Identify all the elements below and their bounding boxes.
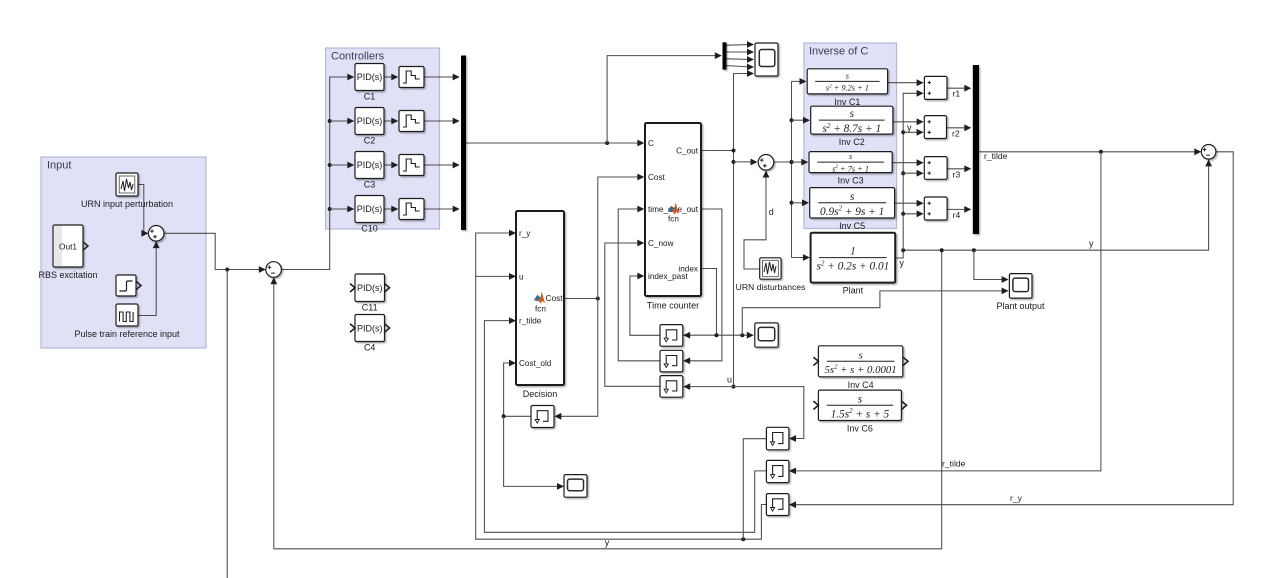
- svg-text:s: s: [849, 152, 852, 161]
- svg-text:Inv C5: Inv C5: [839, 221, 865, 231]
- wire Cost junction down to Delay D1: [554, 299, 598, 420]
- wire PID row3 to rate transition: [384, 162, 398, 169]
- svg-text:s: s: [858, 393, 863, 405]
- svg-text:fcn: fcn: [535, 305, 546, 314]
- svg-text:y: y: [900, 258, 905, 268]
- wire junction to Sum2b: [734, 159, 758, 166]
- wire delay T1 input line and Scope2: [683, 332, 754, 339]
- svg-text:0.9s2 + 9s + 1: 0.9s2 + 9s + 1: [820, 205, 884, 218]
- svg-text:C4: C4: [364, 343, 376, 353]
- ports Inv C6 unconnected: [813, 401, 906, 409]
- svg-text:Cost_old: Cost_old: [519, 359, 552, 368]
- block transfer fcn Inv C3: [809, 152, 892, 186]
- scope Scope2: [755, 323, 778, 347]
- wire y feedback bottom long: [270, 250, 941, 549]
- svg-text:Plant: Plant: [843, 286, 864, 296]
- svg-text:Decision: Decision: [523, 389, 558, 399]
- block Step: [116, 275, 141, 296]
- svg-text:y: y: [907, 123, 912, 133]
- wire index to y335 line: [701, 269, 717, 336]
- svg-text:u: u: [519, 272, 524, 281]
- wire Decision Cost out to junction: [564, 297, 600, 301]
- wire time_out to Delay T2: [683, 209, 722, 364]
- scope Scope1: [755, 43, 778, 76]
- wire rate transition row1 to Mux1: [424, 74, 460, 81]
- sum Sum2b: [758, 155, 774, 171]
- svg-text:Inv C2: Inv C2: [839, 137, 865, 147]
- wire PID row2 to rate transition: [384, 118, 398, 125]
- wire branch down to Scope3: [504, 416, 564, 490]
- svg-text:s: s: [858, 349, 862, 361]
- svg-text:Inverse of C: Inverse of C: [809, 46, 868, 58]
- svg-text:PID(s): PID(s): [357, 204, 383, 214]
- scope Plant output: [996, 274, 1045, 311]
- block Decision: [516, 211, 564, 399]
- wire Demux out2 to Scope1: [727, 49, 755, 56]
- wire Cost junction up to Time counter Cost: [598, 174, 645, 299]
- svg-text:Inv C6: Inv C6: [847, 424, 873, 434]
- mux Mux1: [461, 56, 466, 231]
- svg-text:r_y: r_y: [1010, 493, 1023, 503]
- svg-text:URN disturbances: URN disturbances: [736, 282, 806, 292]
- wire URN input perturbation to Sum1: [138, 185, 148, 237]
- block transfer fcn Inv C2: [811, 106, 893, 147]
- wire branch to Plant output scope input2: [742, 288, 1008, 336]
- wire to Inv C2: [792, 117, 811, 124]
- block rate transition C1: [399, 67, 424, 88]
- area Inverse of C: [804, 43, 897, 229]
- svg-text:C11: C11: [362, 303, 378, 313]
- block Delay T1: [660, 325, 683, 347]
- wire y bus to add r3: [903, 170, 923, 177]
- svg-text:1: 1: [850, 246, 856, 258]
- block PID C10: [355, 196, 384, 234]
- svg-text:y: y: [1089, 239, 1094, 249]
- wire to Inv C1: [792, 78, 807, 85]
- svg-text:s: s: [850, 191, 855, 203]
- svg-text:r_tilde: r_tilde: [519, 317, 542, 326]
- block Delay B: [766, 460, 789, 482]
- wire Pulse train to Sum1 bottom: [138, 241, 160, 315]
- wire u branch: [476, 273, 516, 280]
- svg-text:s: s: [846, 71, 849, 80]
- svg-text:Inv C1: Inv C1: [834, 97, 860, 107]
- wire Demux out1 to Scope1: [727, 41, 755, 48]
- demux Demux1: [723, 42, 727, 69]
- wire PID row4 to rate transition: [384, 206, 398, 213]
- block PID C1: [355, 64, 384, 102]
- block PID C4: [350, 315, 390, 353]
- wire Sum2 out to controllers bus: [281, 74, 354, 270]
- wire add r3 to Mux2: [947, 165, 971, 172]
- svg-text:Cost: Cost: [546, 294, 564, 303]
- sum Sum2: [266, 262, 282, 278]
- sum Sum3: [1201, 145, 1216, 160]
- svg-text:r_tilde: r_tilde: [984, 151, 1008, 161]
- svg-text:Time counter: Time counter: [647, 301, 699, 311]
- wire y bus to add r4: [903, 210, 923, 217]
- svg-text:RBS excitation: RBS excitation: [38, 270, 97, 280]
- block transfer fcn Inv C6: [818, 390, 901, 433]
- svg-text:r4: r4: [953, 210, 961, 220]
- wire branch down off-canvas: [226, 270, 228, 578]
- svg-text:r2: r2: [952, 128, 960, 138]
- svg-text:C3: C3: [364, 180, 376, 190]
- wire r_tilde line from Mux2 to Sum3: [979, 148, 1201, 155]
- block RBS excitation: [38, 225, 97, 280]
- svg-text:Input: Input: [47, 160, 71, 172]
- svg-text:r1: r1: [953, 89, 961, 99]
- wire to Inv C5: [792, 199, 810, 206]
- wire y bus up to add blocks: [901, 90, 923, 250]
- svg-text:r_tilde: r_tilde: [942, 459, 966, 469]
- sum Sum1: [148, 226, 164, 242]
- wire Delay T2 out to time_counter: [618, 206, 660, 361]
- wire Inv C5 out to add r4: [895, 200, 924, 207]
- wire add r4 to Mux2: [947, 206, 971, 213]
- block PID C2: [355, 108, 384, 146]
- svg-text:Inv C3: Inv C3: [838, 176, 864, 186]
- block rate transition C2: [399, 111, 424, 132]
- svg-text:s: s: [850, 108, 855, 120]
- wire Inv C1 out to add r1: [888, 79, 924, 86]
- svg-text:s2 + 0.2s + 0.01: s2 + 0.2s + 0.01: [817, 259, 890, 272]
- block PID C3: [355, 152, 384, 190]
- svg-text:r_y: r_y: [519, 229, 531, 238]
- wire rate transition row3 to Mux1: [424, 162, 460, 169]
- ports Inv C4 unconnected: [813, 357, 908, 365]
- svg-text:Out1: Out1: [59, 242, 77, 252]
- wire Demux out4 to Scope1: [727, 64, 755, 71]
- wire Inv C3 out to add r3: [892, 159, 923, 166]
- wire Mux1 output C to Time counter with demux branch: [466, 140, 644, 147]
- block rate transition C10: [399, 199, 424, 220]
- wire r_tilde riser: [484, 317, 766, 532]
- wire Delay T3 out to C_now: [605, 240, 660, 387]
- block Delay T3: [660, 376, 683, 398]
- svg-text:s2 + 8.7s + 1: s2 + 8.7s + 1: [822, 122, 881, 135]
- wire Plant out jog to y line: [895, 250, 903, 258]
- svg-text:C2: C2: [364, 136, 376, 146]
- wire Demux out3 to Scope1: [727, 56, 755, 63]
- svg-text:URN input perturbation: URN input perturbation: [81, 199, 173, 209]
- block Pulse train: [74, 304, 180, 339]
- block transfer fcn Inv C1: [807, 69, 887, 107]
- wire rate transition row4 to Mux1: [424, 206, 460, 213]
- sum add r1: [924, 76, 947, 99]
- svg-text:Pulse train reference input: Pulse train reference input: [74, 329, 180, 339]
- wire add r2 to Mux2: [947, 124, 972, 131]
- wire d wire URN disturbances to Sum2b: [744, 171, 769, 270]
- svg-text:r3: r3: [953, 169, 961, 179]
- wire Sum1 to Sum2 with branch down: [164, 233, 266, 273]
- block transfer fcn Plant: [811, 233, 896, 296]
- svg-text:C1: C1: [364, 92, 376, 102]
- wire to Plant: [792, 254, 810, 261]
- sum add r2: [924, 116, 946, 139]
- area Input: [41, 157, 206, 348]
- svg-text:s2 + 9.2s + 1: s2 + 9.2s + 1: [826, 83, 869, 92]
- svg-text:1.5s2 + s + 5: 1.5s2 + s + 5: [831, 407, 890, 420]
- sum add r3: [924, 157, 947, 180]
- wire Delay D1 out to Cost_old and Scope3: [502, 360, 531, 419]
- wire Time counter C_out to junction: [701, 150, 734, 152]
- block Delay T2: [660, 350, 683, 372]
- block transfer fcn Inv C4: [818, 346, 902, 390]
- svg-text:PID(s): PID(s): [357, 283, 383, 293]
- svg-text:PID(s): PID(s): [357, 324, 383, 334]
- svg-text:d: d: [769, 207, 774, 217]
- svg-text:Cost: Cost: [648, 173, 666, 182]
- block Delay C: [766, 494, 789, 516]
- svg-text:Plant output: Plant output: [996, 301, 1045, 311]
- wire y line to Sum3 bottom: [901, 159, 1212, 252]
- wire bus to PID C10: [330, 206, 355, 213]
- svg-text:PID(s): PID(s): [357, 72, 383, 82]
- wire Delay T1 out to index_past: [630, 273, 660, 336]
- svg-text:Controllers: Controllers: [331, 51, 385, 63]
- svg-text:C_out: C_out: [676, 147, 699, 156]
- wire u vertical net (scope1 in5 / sum input / u line): [732, 70, 755, 389]
- block URN input perturbation: [81, 173, 173, 209]
- svg-text:PID(s): PID(s): [357, 116, 383, 126]
- wire y bus to add r2: [903, 129, 923, 136]
- svg-text:C: C: [648, 139, 654, 148]
- svg-text:u: u: [727, 375, 732, 385]
- wire u line to Delay A: [683, 383, 804, 442]
- wire Sum3 out to r_y line to Delay C: [789, 152, 1233, 508]
- wire r_y riser with u branch: [476, 230, 767, 542]
- wire Delay A out down: [743, 439, 766, 540]
- wire rate transition row2 to Mux1: [424, 118, 460, 125]
- block transfer fcn Inv C5: [810, 188, 895, 231]
- svg-text:s2 + 7s + 1: s2 + 7s + 1: [832, 164, 869, 173]
- block PID C11: [350, 274, 390, 313]
- svg-text:fcn: fcn: [668, 215, 679, 224]
- svg-text:PID(s): PID(s): [357, 160, 383, 170]
- block Delay D1 (below Decision): [531, 406, 554, 428]
- svg-text:C10: C10: [361, 224, 378, 234]
- wire PID row1 to rate transition: [384, 74, 398, 81]
- scope Scope3: [564, 475, 587, 498]
- area Controllers: [326, 48, 440, 229]
- block Delay A: [766, 427, 789, 450]
- block URN disturbances: [736, 258, 806, 292]
- svg-text:index: index: [678, 265, 698, 274]
- block Time counter: [645, 123, 701, 311]
- wire r_tilde feedback to Delay B: [789, 152, 1101, 475]
- wire bus to PID C2: [330, 118, 355, 125]
- svg-text:Inv C4: Inv C4: [848, 380, 874, 390]
- wire Sum2b out distribution: [774, 160, 794, 164]
- mux Mux2: [973, 65, 979, 234]
- wire add r1 to Mux2: [947, 85, 971, 92]
- wire branch up to Demux: [607, 52, 722, 143]
- wire distribution vertical: [790, 81, 794, 257]
- wire bus to PID C3: [330, 162, 355, 169]
- wire Inv C2 out to add r2: [893, 118, 924, 125]
- wire to Inv C3: [792, 159, 809, 166]
- svg-text:C_now: C_now: [648, 239, 674, 248]
- wire y to Plant output scope in1: [974, 250, 1009, 283]
- block rate transition C3: [399, 155, 424, 176]
- sum add r4: [924, 197, 947, 220]
